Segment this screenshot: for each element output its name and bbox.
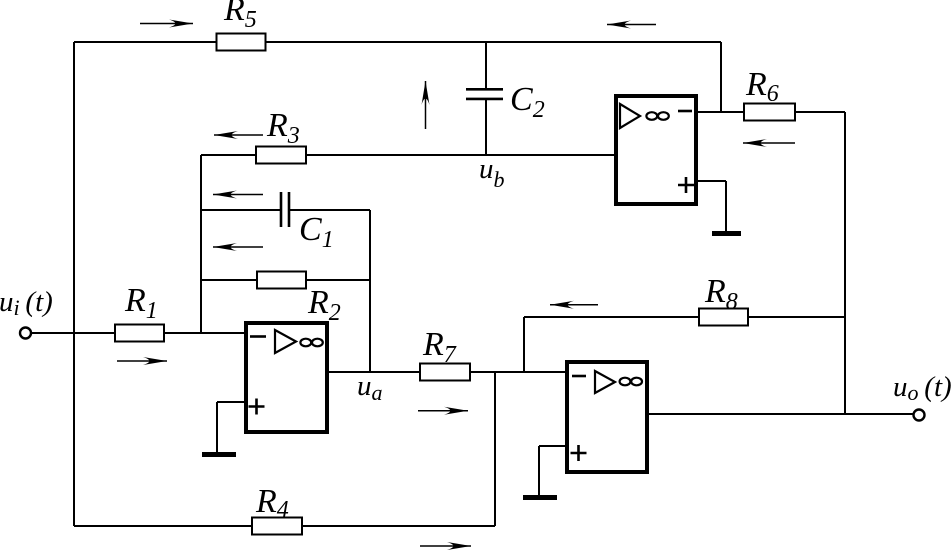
svg-text:ui (t): ui (t) — [0, 286, 53, 320]
svg-text:uo (t): uo (t) — [893, 371, 952, 405]
